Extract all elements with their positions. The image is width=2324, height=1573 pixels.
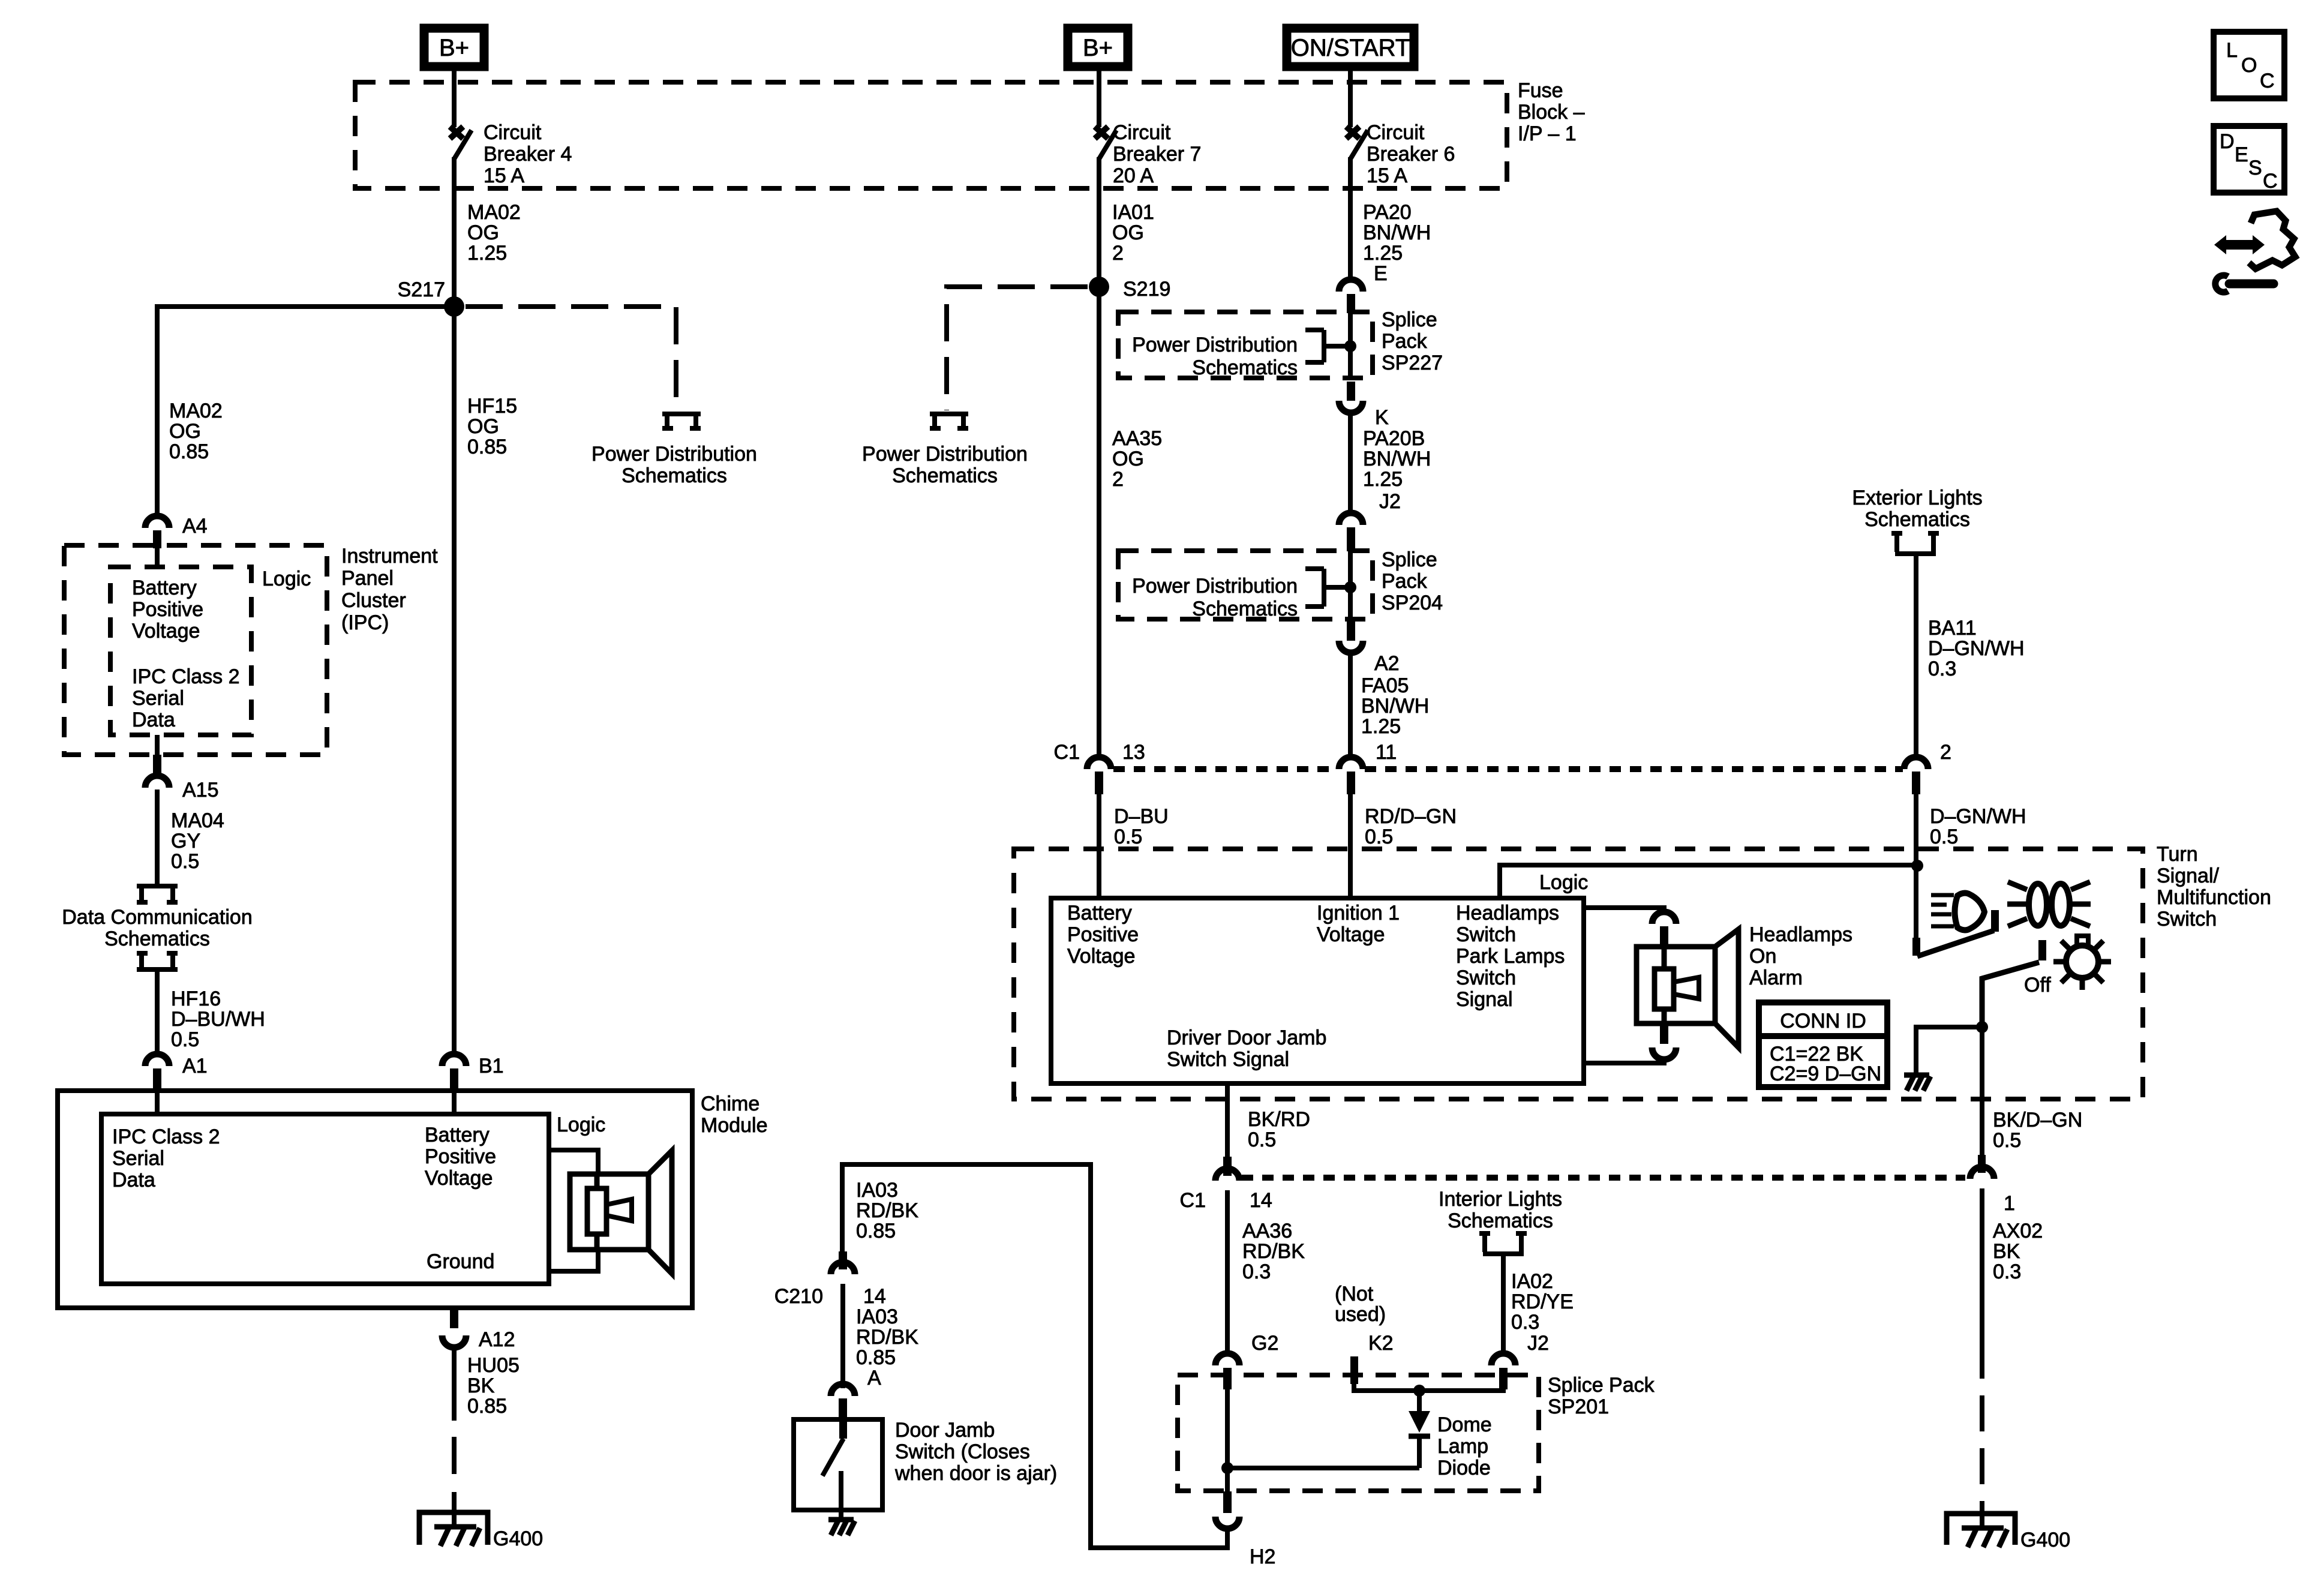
circuit breaker 7, 20 A <box>1095 121 1201 187</box>
wire label RD/D-GN 0.5 <box>1365 805 1457 848</box>
svg-text:Serial: Serial <box>112 1147 164 1170</box>
svg-text:RD/YE: RD/YE <box>1511 1290 1574 1313</box>
label power distribution schematics (SP204) <box>1132 575 1298 620</box>
label driver door jamb switch signal (switch pin) <box>1167 1026 1326 1071</box>
svg-text:BK/RD: BK/RD <box>1248 1108 1310 1131</box>
svg-text:Signal/: Signal/ <box>2157 864 2220 887</box>
svg-text:GY: GY <box>171 830 200 852</box>
svg-text:Ground: Ground <box>427 1250 494 1273</box>
svg-text:IPC Class 2: IPC Class 2 <box>132 665 240 688</box>
svg-text:A4: A4 <box>182 515 208 538</box>
svg-text:Signal: Signal <box>1456 988 1513 1011</box>
wire label IA03 RD/BK 0.85 (upper) <box>856 1179 918 1242</box>
lamp (dome) icon <box>2053 936 2111 990</box>
turn signal / multifunction switch dashed box <box>1014 849 2143 1099</box>
wire A1 into chime logic box <box>155 1091 160 1116</box>
svg-text:G400: G400 <box>493 1527 543 1550</box>
wire label BK/D-GN 0.5 <box>1993 1109 2082 1152</box>
svg-text:RD/D–GN: RD/D–GN <box>1365 805 1457 828</box>
label power distribution schematics (SP227) <box>1132 334 1298 379</box>
svg-text:BN/WH: BN/WH <box>1363 448 1431 470</box>
connector K (splice pack SP227 output) <box>1339 382 1389 429</box>
svg-text:0.85: 0.85 <box>467 1395 507 1418</box>
connector 1 (lamp ground lead) <box>1970 1155 2015 1215</box>
svg-text:FA05: FA05 <box>1361 674 1409 697</box>
svg-text:0.85: 0.85 <box>169 440 209 463</box>
wire AA35 S219 to connector C1-13 <box>1097 287 1101 758</box>
dashed reference wire S217 to power distribution schematics <box>466 307 676 410</box>
dashed ground lead to G400 (right) <box>1980 1343 1984 1512</box>
wire label IA01 OG 2 <box>1112 201 1154 265</box>
svg-text:Switch: Switch <box>1456 966 1516 989</box>
svg-text:Door Jamb: Door Jamb <box>895 1419 995 1442</box>
svg-text:IPC Class 2: IPC Class 2 <box>112 1125 220 1148</box>
chime module logic inner box <box>101 1114 549 1284</box>
label interior lights schematics <box>1439 1188 1562 1232</box>
multifunction switch logic box <box>1051 898 1584 1083</box>
svg-text:Battery: Battery <box>1067 902 1132 924</box>
svg-text:0.85: 0.85 <box>856 1220 896 1242</box>
svg-text:E: E <box>2235 143 2248 166</box>
svg-text:Park Lamps: Park Lamps <box>1456 945 1565 968</box>
svg-text:Circuit: Circuit <box>1367 121 1425 144</box>
off-page reference symbol (power distribution schematics, S217 feed) <box>662 414 701 428</box>
wire B+ to circuit breaker 7 <box>1097 71 1101 127</box>
connector C1 pin 14 <box>1180 1157 1272 1212</box>
svg-text:AA36: AA36 <box>1242 1220 1292 1242</box>
svg-text:Power Distribution: Power Distribution <box>1132 575 1298 598</box>
wire K2 to J2 splice bus <box>1354 1383 1503 1391</box>
connector B1 (chime module) <box>442 1054 504 1091</box>
svg-text:A: A <box>867 1367 881 1389</box>
svg-text:Turn: Turn <box>2157 843 2198 866</box>
svg-text:Diode: Diode <box>1437 1457 1491 1479</box>
svg-text:Instrument: Instrument <box>341 545 438 568</box>
svg-text:0.5: 0.5 <box>171 1028 199 1051</box>
splice pack SP204 dashed box <box>1118 551 1373 619</box>
connector E (splice pack SP227 input) <box>1339 262 1388 313</box>
wire D-GN/WH connector 2 into turn signal switch <box>1914 793 1918 868</box>
svg-text:Multifunction: Multifunction <box>2157 886 2271 909</box>
door jamb switch contacts <box>822 1419 847 1518</box>
svg-text:Ignition 1: Ignition 1 <box>1317 902 1400 924</box>
wire junction to diode <box>1227 1466 1419 1470</box>
svg-text:HF16: HF16 <box>171 987 221 1010</box>
svg-text:SP204: SP204 <box>1382 592 1443 614</box>
svg-text:B1: B1 <box>479 1055 504 1077</box>
svg-text:HF15: HF15 <box>467 395 517 418</box>
svg-text:Schematics: Schematics <box>104 927 210 950</box>
svg-text:C: C <box>2260 70 2275 92</box>
svg-text:Switch: Switch <box>2157 908 2217 930</box>
label splice pack SP201 <box>1548 1374 1655 1418</box>
label splice pack SP227 <box>1382 308 1443 374</box>
svg-text:Logic: Logic <box>1539 871 1588 894</box>
svg-text:BN/WH: BN/WH <box>1361 695 1429 718</box>
connector A2 (splice pack SP204 output) <box>1339 622 1400 675</box>
LOC reference box <box>2214 32 2284 98</box>
headlamp beam icon <box>1931 893 1984 930</box>
svg-text:Voltage: Voltage <box>425 1167 493 1190</box>
wire junction to switch ground <box>1916 1027 1982 1074</box>
DESC reference box <box>2214 126 2284 193</box>
connector 2 (turn signal switch) <box>1904 741 1951 794</box>
svg-text:Schematics: Schematics <box>1192 356 1298 379</box>
svg-text:0.3: 0.3 <box>1928 658 1956 680</box>
svg-text:A12: A12 <box>479 1328 515 1351</box>
svg-text:S217: S217 <box>398 278 445 301</box>
wire label AX02 BK 0.3 <box>1993 1220 2043 1283</box>
svg-text:MA02: MA02 <box>467 201 521 224</box>
svg-text:OG: OG <box>1112 448 1144 470</box>
wire FA05 A2 to connector 11 <box>1348 652 1353 758</box>
wire label AA35 OG 2 <box>1112 427 1162 491</box>
svg-text:Lamp: Lamp <box>1437 1435 1488 1458</box>
label door jamb switch <box>894 1419 1057 1485</box>
svg-text:E: E <box>1374 262 1388 285</box>
svg-text:Off: Off <box>2024 974 2051 996</box>
svg-text:13: 13 <box>1122 741 1145 764</box>
svg-text:SP227: SP227 <box>1382 352 1443 374</box>
label battery positive voltage (chime pin) <box>425 1124 496 1190</box>
svg-text:Splice: Splice <box>1382 548 1437 571</box>
svg-text:Data: Data <box>112 1169 155 1191</box>
svg-text:L: L <box>2226 39 2238 62</box>
svg-text:(Not: (Not <box>1335 1283 1374 1305</box>
svg-text:Circuit: Circuit <box>1113 121 1171 144</box>
svg-text:A15: A15 <box>182 779 219 801</box>
svg-text:Switch Signal: Switch Signal <box>1167 1048 1289 1071</box>
connector C1 pin 11 <box>1339 741 1397 794</box>
svg-text:Alarm: Alarm <box>1749 966 1803 989</box>
label power distribution schematics (middle) <box>862 443 1028 487</box>
wire HF15 S217 to connector B1 <box>452 307 457 1056</box>
wire label PA20B BN/WH 1.25 <box>1363 427 1431 491</box>
svg-text:G2: G2 <box>1251 1332 1278 1355</box>
label exterior lights schematics <box>1852 487 1982 531</box>
svg-text:Serial: Serial <box>132 687 184 710</box>
instrument panel cluster dashed box <box>64 545 327 755</box>
off-page reference symbol (exterior lights schematics) <box>1891 533 1939 554</box>
label IPC class 2 serial data (chime pin) <box>112 1125 220 1191</box>
svg-text:D–GN/WH: D–GN/WH <box>1930 805 2026 828</box>
connector line C1 (dotted) <box>1113 766 1903 772</box>
wire AA36 C1-14 to G2 <box>1225 1190 1230 1355</box>
svg-text:K: K <box>1375 406 1389 429</box>
svg-text:IA03: IA03 <box>856 1179 898 1202</box>
label (not used) K2 <box>1335 1283 1386 1326</box>
connector (horn top) <box>1652 912 1676 947</box>
connector A4 (IPC) <box>145 515 208 548</box>
svg-text:0.5: 0.5 <box>1993 1129 2021 1152</box>
svg-text:11: 11 <box>1376 741 1397 764</box>
connector A15 (IPC) <box>145 755 219 801</box>
svg-text:2: 2 <box>1112 242 1124 265</box>
svg-text:Breaker 4: Breaker 4 <box>484 143 572 166</box>
connector C1 pin 13 <box>1054 741 1145 794</box>
svg-text:OG: OG <box>467 221 499 244</box>
wire through SP227 <box>1348 311 1353 379</box>
wire label D-GN/WH 0.5 <box>1930 805 2026 848</box>
off-page reference symbol (data communication, bottom) <box>137 953 178 969</box>
svg-text:SP201: SP201 <box>1548 1395 1609 1418</box>
svg-text:D–BU: D–BU <box>1114 805 1169 828</box>
connector J2 (splice pack SP204 input) <box>1339 490 1401 551</box>
horn wire bottom to logic box <box>1584 1058 1664 1063</box>
wire PA20B K to connector J2 <box>1348 412 1353 515</box>
CONN ID table <box>1759 1002 1887 1087</box>
svg-text:Schematics: Schematics <box>621 464 727 487</box>
svg-text:0.5: 0.5 <box>171 850 199 873</box>
label turn signal / multifunction switch <box>2157 843 2271 930</box>
IPC logic inner dashed box <box>110 567 251 735</box>
svg-text:Cluster: Cluster <box>341 589 406 612</box>
label splice pack SP204 <box>1382 548 1443 614</box>
svg-text:D–GN/WH: D–GN/WH <box>1928 637 2025 660</box>
circuit breaker 4, 15 A <box>450 121 572 187</box>
svg-text:MA02: MA02 <box>169 400 223 422</box>
label headlamps switch park lamps switch signal (switch pin) <box>1456 902 1565 1011</box>
wire BK/D-GN junction down to connector 1 <box>1980 1027 1984 1157</box>
wire label MA04 GY 0.5 <box>171 809 224 873</box>
wire junction to switch pole <box>1914 866 1918 939</box>
svg-text:BK: BK <box>467 1374 495 1397</box>
svg-text:AX02: AX02 <box>1993 1220 2043 1242</box>
svg-text:Logic: Logic <box>557 1113 605 1136</box>
chime module outer box <box>58 1091 692 1308</box>
label dome lamp diode <box>1437 1413 1492 1479</box>
connector line (dotted, bottom) <box>1242 1175 1965 1181</box>
svg-text:Switch (Closes: Switch (Closes <box>895 1440 1030 1463</box>
svg-text:14: 14 <box>863 1285 886 1308</box>
svg-text:O: O <box>2241 54 2257 77</box>
svg-text:Pack: Pack <box>1382 570 1428 593</box>
svg-text:OG: OG <box>467 415 499 438</box>
wire BK/RD logic box to connector C1-14 <box>1225 1083 1230 1159</box>
svg-text:RD/BK: RD/BK <box>1242 1240 1305 1263</box>
svg-text:PA20B: PA20B <box>1363 427 1425 450</box>
svg-text:Circuit: Circuit <box>484 121 542 144</box>
svg-text:D–BU/WH: D–BU/WH <box>171 1008 265 1031</box>
svg-text:when door is ajar): when door is ajar) <box>894 1462 1057 1485</box>
wire S217 to left branch <box>157 307 454 515</box>
wire label MA02 OG 0.85 (left branch) <box>169 400 223 463</box>
logic notch wire to headlamp switch <box>1500 865 1917 898</box>
svg-text:used): used) <box>1335 1303 1386 1326</box>
node S219 <box>1089 277 1170 301</box>
ground symbol (door jamb switch) <box>828 1520 855 1535</box>
svg-text:Breaker 7: Breaker 7 <box>1113 143 1201 166</box>
wire label HF15 OG 0.85 <box>467 395 517 458</box>
wire AX02 connector 1 to G400 <box>1980 1188 1984 1343</box>
svg-text:OG: OG <box>169 420 201 443</box>
label power distribution schematics (left) <box>591 443 757 487</box>
off contact bar <box>2038 940 2046 960</box>
power symbol B+ (feed to circuit breaker 4) <box>424 28 484 67</box>
svg-text:IA03: IA03 <box>856 1305 898 1328</box>
svg-text:MA04: MA04 <box>171 809 224 832</box>
wire A4 into IPC logic box <box>155 545 160 569</box>
splice bracket SP227 (power distribution schematics tie) <box>1305 330 1356 362</box>
connector G2 (splice pack SP201) <box>1215 1332 1278 1389</box>
svg-text:Fuse: Fuse <box>1518 79 1563 102</box>
svg-text:Logic: Logic <box>262 568 311 590</box>
connector A12 (chime ground output) <box>442 1308 515 1351</box>
svg-text:BK: BK <box>1993 1240 2020 1263</box>
svg-text:Interior Lights: Interior Lights <box>1439 1188 1562 1211</box>
label battery positive voltage (IPC pin) <box>132 577 203 643</box>
svg-text:Dome: Dome <box>1437 1413 1492 1436</box>
ground symbol G400 (left) <box>419 1503 543 1550</box>
svg-text:CONN ID: CONN ID <box>1780 1010 1866 1032</box>
svg-text:0.5: 0.5 <box>1930 825 1958 848</box>
svg-text:2: 2 <box>1112 468 1124 491</box>
wire PA20 breaker 6 to connector E <box>1348 157 1353 280</box>
splice bracket SP204 (power distribution schematics tie) <box>1305 569 1356 607</box>
svg-text:0.5: 0.5 <box>1365 825 1393 848</box>
label headlamps on alarm <box>1749 923 1852 989</box>
horn wire (logic box to headlamps on alarm) top <box>1584 908 1664 912</box>
svg-text:Switch: Switch <box>1456 923 1516 946</box>
svg-text:0.3: 0.3 <box>1511 1311 1539 1334</box>
svg-text:G400: G400 <box>2020 1529 2070 1551</box>
connector A1 (chime module) <box>145 1054 208 1091</box>
svg-text:Voltage: Voltage <box>1067 945 1135 968</box>
svg-text:C210: C210 <box>774 1285 823 1308</box>
svg-text:C: C <box>2263 170 2278 193</box>
svg-text:Headlamps: Headlamps <box>1749 923 1852 946</box>
svg-text:J2: J2 <box>1527 1332 1549 1355</box>
fuse block I/P dashed box <box>355 82 1507 188</box>
svg-text:Voltage: Voltage <box>132 620 200 643</box>
wire label BK/RD 0.5 <box>1248 1108 1310 1151</box>
svg-text:Battery: Battery <box>425 1124 490 1146</box>
svg-text:Data Communication: Data Communication <box>62 906 252 929</box>
svg-text:H2: H2 <box>1250 1545 1275 1568</box>
wire IA02 reference to connector J2 <box>1501 1255 1506 1355</box>
splice pack SP201 dashed box <box>1178 1375 1539 1491</box>
power symbol B+ (feed to circuit breaker 7) <box>1068 28 1128 67</box>
svg-text:AA35: AA35 <box>1112 427 1162 450</box>
wire label HU05 BK 0.85 <box>467 1354 520 1418</box>
svg-text:15 A: 15 A <box>1367 164 1407 187</box>
connector A (door jamb switch) <box>831 1384 855 1421</box>
svg-text:0.3: 0.3 <box>1993 1260 2021 1283</box>
svg-text:J2: J2 <box>1379 490 1401 513</box>
svg-text:RD/BK: RD/BK <box>856 1326 918 1349</box>
svg-text:BK/D–GN: BK/D–GN <box>1993 1109 2082 1131</box>
off-page reference symbol (power distribution schematics, S219 feed) <box>930 414 968 428</box>
wire HU05 A12 to G400 <box>452 1347 457 1421</box>
svg-text:BA11: BA11 <box>1928 617 1977 640</box>
switch lever (headlamps on position) <box>1917 930 1994 956</box>
svg-text:C2=9 D–GN: C2=9 D–GN <box>1770 1062 1881 1085</box>
wire label FA05 BN/WH 1.25 <box>1361 674 1429 738</box>
svg-text:Pack: Pack <box>1382 330 1428 353</box>
svg-text:ON/START: ON/START <box>1291 35 1410 61</box>
svg-text:Module: Module <box>701 1114 768 1137</box>
svg-text:Power Distribution: Power Distribution <box>591 443 757 466</box>
svg-text:0.5: 0.5 <box>1248 1128 1276 1151</box>
svg-text:Voltage: Voltage <box>1317 923 1385 946</box>
wire RD/D-GN C1-11 to logic box <box>1348 793 1353 900</box>
wire B1 into chime logic box <box>452 1091 457 1116</box>
svg-text:1.25: 1.25 <box>467 242 507 265</box>
svg-text:RD/BK: RD/BK <box>856 1199 918 1222</box>
svg-text:1.25: 1.25 <box>1361 715 1401 738</box>
svg-text:Schematics: Schematics <box>892 464 998 487</box>
svg-text:15 A: 15 A <box>484 164 524 187</box>
power symbol ON/START (ignition feed) <box>1287 28 1414 67</box>
splice pack SP227 dashed box <box>1118 312 1373 378</box>
svg-text:Positive: Positive <box>425 1145 496 1168</box>
wire B+ to circuit breaker 4 <box>452 71 457 127</box>
svg-text:0.5: 0.5 <box>1114 825 1142 848</box>
wire MA02 breaker 4 to S217 <box>452 157 457 307</box>
wire HF16 reference to connector A1 <box>155 969 160 1056</box>
svg-text:PA20: PA20 <box>1363 201 1412 224</box>
svg-text:1: 1 <box>2004 1192 2015 1215</box>
svg-text:BN/WH: BN/WH <box>1363 221 1431 244</box>
svg-text:IA02: IA02 <box>1511 1270 1553 1293</box>
node dome lamp diode tap <box>1413 1385 1425 1397</box>
svg-text:OG: OG <box>1112 221 1144 244</box>
label data communication schematics <box>62 906 252 950</box>
horn (headlamps on alarm) icon <box>1637 929 1739 1047</box>
svg-text:1.25: 1.25 <box>1363 468 1403 491</box>
chime speaker icon <box>549 1150 672 1274</box>
svg-text:20 A: 20 A <box>1113 164 1154 187</box>
label Instrument Panel Cluster (IPC) <box>341 545 438 634</box>
connector C210 <box>774 1251 886 1308</box>
label ignition 1 voltage (switch pin) <box>1317 902 1400 946</box>
svg-text:Block –: Block – <box>1518 101 1585 124</box>
svg-text:0.85: 0.85 <box>856 1346 896 1369</box>
svg-text:Splice Pack: Splice Pack <box>1548 1374 1655 1397</box>
wire label D-BU 0.5 <box>1114 805 1169 848</box>
svg-text:2: 2 <box>1940 741 1951 764</box>
off-page reference symbol (data communication, top) <box>137 886 178 902</box>
label IPC class 2 serial data (IPC pin) <box>132 665 240 731</box>
wire through SP204 <box>1348 550 1353 620</box>
wire label MA02 OG 1.25 <box>467 201 521 265</box>
svg-text:Power Distribution: Power Distribution <box>1132 334 1298 356</box>
svg-text:Chime: Chime <box>701 1092 759 1115</box>
node junction headlamp switch feed <box>1911 860 1923 872</box>
ground symbol (switch off position) <box>1904 1075 1930 1091</box>
svg-text:C1: C1 <box>1054 741 1080 764</box>
svg-text:Splice: Splice <box>1382 308 1437 331</box>
svg-text:1.25: 1.25 <box>1363 242 1403 265</box>
ground symbol G400 (right) <box>1947 1505 2070 1551</box>
svg-text:Power Distribution: Power Distribution <box>862 443 1028 466</box>
svg-text:Battery: Battery <box>132 577 197 599</box>
wire MA04 A15 to data communication reference <box>155 789 160 884</box>
wire BA11 reference to connector 2 <box>1914 555 1918 758</box>
connector (horn bottom) <box>1652 1023 1676 1059</box>
dome lamp diode <box>1409 1391 1430 1468</box>
svg-text:K2: K2 <box>1368 1332 1394 1355</box>
wire G2 through SP201 to H2 <box>1225 1388 1230 1494</box>
wire IA03 C210 to connector A <box>840 1284 845 1388</box>
connector H2 (splice pack SP201 output) <box>1215 1491 1275 1568</box>
svg-text:Positive: Positive <box>132 598 203 621</box>
wire label PA20 BN/WH 1.25 <box>1363 201 1431 265</box>
svg-text:IA01: IA01 <box>1112 201 1154 224</box>
svg-text:Positive: Positive <box>1067 923 1139 946</box>
svg-text:S: S <box>2248 157 2262 179</box>
wire H2 to door jamb switch loop <box>842 1164 1227 1548</box>
